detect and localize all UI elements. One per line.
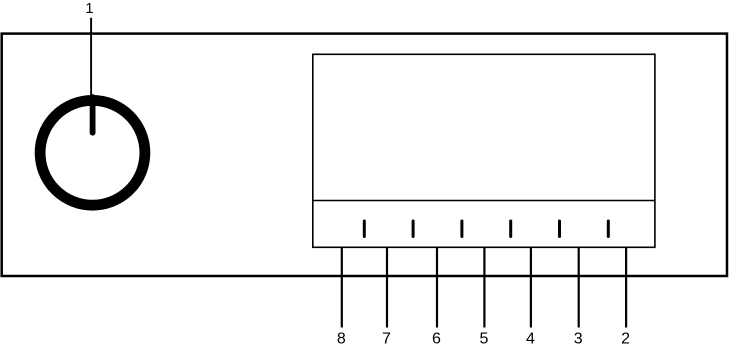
button tick 6 <box>607 221 610 237</box>
leader line 1 <box>90 18 92 100</box>
control panel outline <box>2 34 727 276</box>
leader line 6 <box>436 247 438 327</box>
svg-text:4: 4 <box>526 331 535 345</box>
button tick 5 <box>558 221 561 237</box>
button tick 1 <box>363 221 366 237</box>
svg-text:5: 5 <box>479 331 488 345</box>
svg-text:1: 1 <box>85 1 93 17</box>
leader line 4 <box>530 247 532 327</box>
svg-text:8: 8 <box>337 331 346 345</box>
button tick 2 <box>412 221 415 237</box>
svg-text:7: 7 <box>382 331 391 345</box>
knob pointer <box>90 97 96 133</box>
leader line 8 <box>341 247 343 327</box>
button tick 4 <box>509 221 512 237</box>
button tick 3 <box>460 221 463 237</box>
leader line 5 <box>483 247 485 327</box>
leader line 7 <box>386 247 388 327</box>
knob (rotary selector) <box>40 100 145 205</box>
svg-text:3: 3 <box>574 331 583 345</box>
svg-text:2: 2 <box>621 331 630 345</box>
button strip divider <box>313 200 655 202</box>
leader line 3 <box>578 247 580 327</box>
leader line 2 <box>625 247 627 327</box>
display window <box>313 54 655 247</box>
svg-text:6: 6 <box>432 331 441 345</box>
